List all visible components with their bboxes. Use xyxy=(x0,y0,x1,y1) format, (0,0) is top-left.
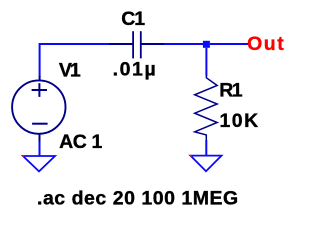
svg-text:.01µ: .01µ xyxy=(113,59,158,81)
value .01µ xyxy=(113,59,158,81)
svg-text:AC 1: AC 1 xyxy=(59,131,102,153)
junction xyxy=(203,41,210,48)
value 10K xyxy=(220,110,260,132)
wire xyxy=(40,44,109,76)
wire xyxy=(205,48,207,76)
value AC 1 xyxy=(59,131,102,153)
ground xyxy=(191,156,222,172)
svg-text:C1: C1 xyxy=(121,8,145,30)
wire xyxy=(205,140,207,156)
ground red dot xyxy=(190,155,192,157)
svg-text:R1: R1 xyxy=(219,80,242,102)
label R1 xyxy=(219,80,242,102)
svg-text:.ac dec 20 100 1MEG: .ac dec 20 100 1MEG xyxy=(37,187,239,209)
ground red dot xyxy=(22,155,24,157)
wire xyxy=(39,142,41,157)
svg-text:Out: Out xyxy=(247,33,285,55)
capacitor C1 xyxy=(109,31,164,58)
label V1 xyxy=(59,60,81,82)
label C1 xyxy=(121,8,145,30)
svg-text:V1: V1 xyxy=(59,60,81,82)
voltage source V1 xyxy=(12,76,65,142)
ground xyxy=(23,156,55,171)
resistor R1 xyxy=(195,76,218,140)
svg-text:10K: 10K xyxy=(220,110,260,132)
wire xyxy=(210,43,249,45)
node Out xyxy=(247,33,285,55)
spice directive .ac dec 20 100 1MEG xyxy=(37,187,239,209)
wire xyxy=(164,43,203,45)
